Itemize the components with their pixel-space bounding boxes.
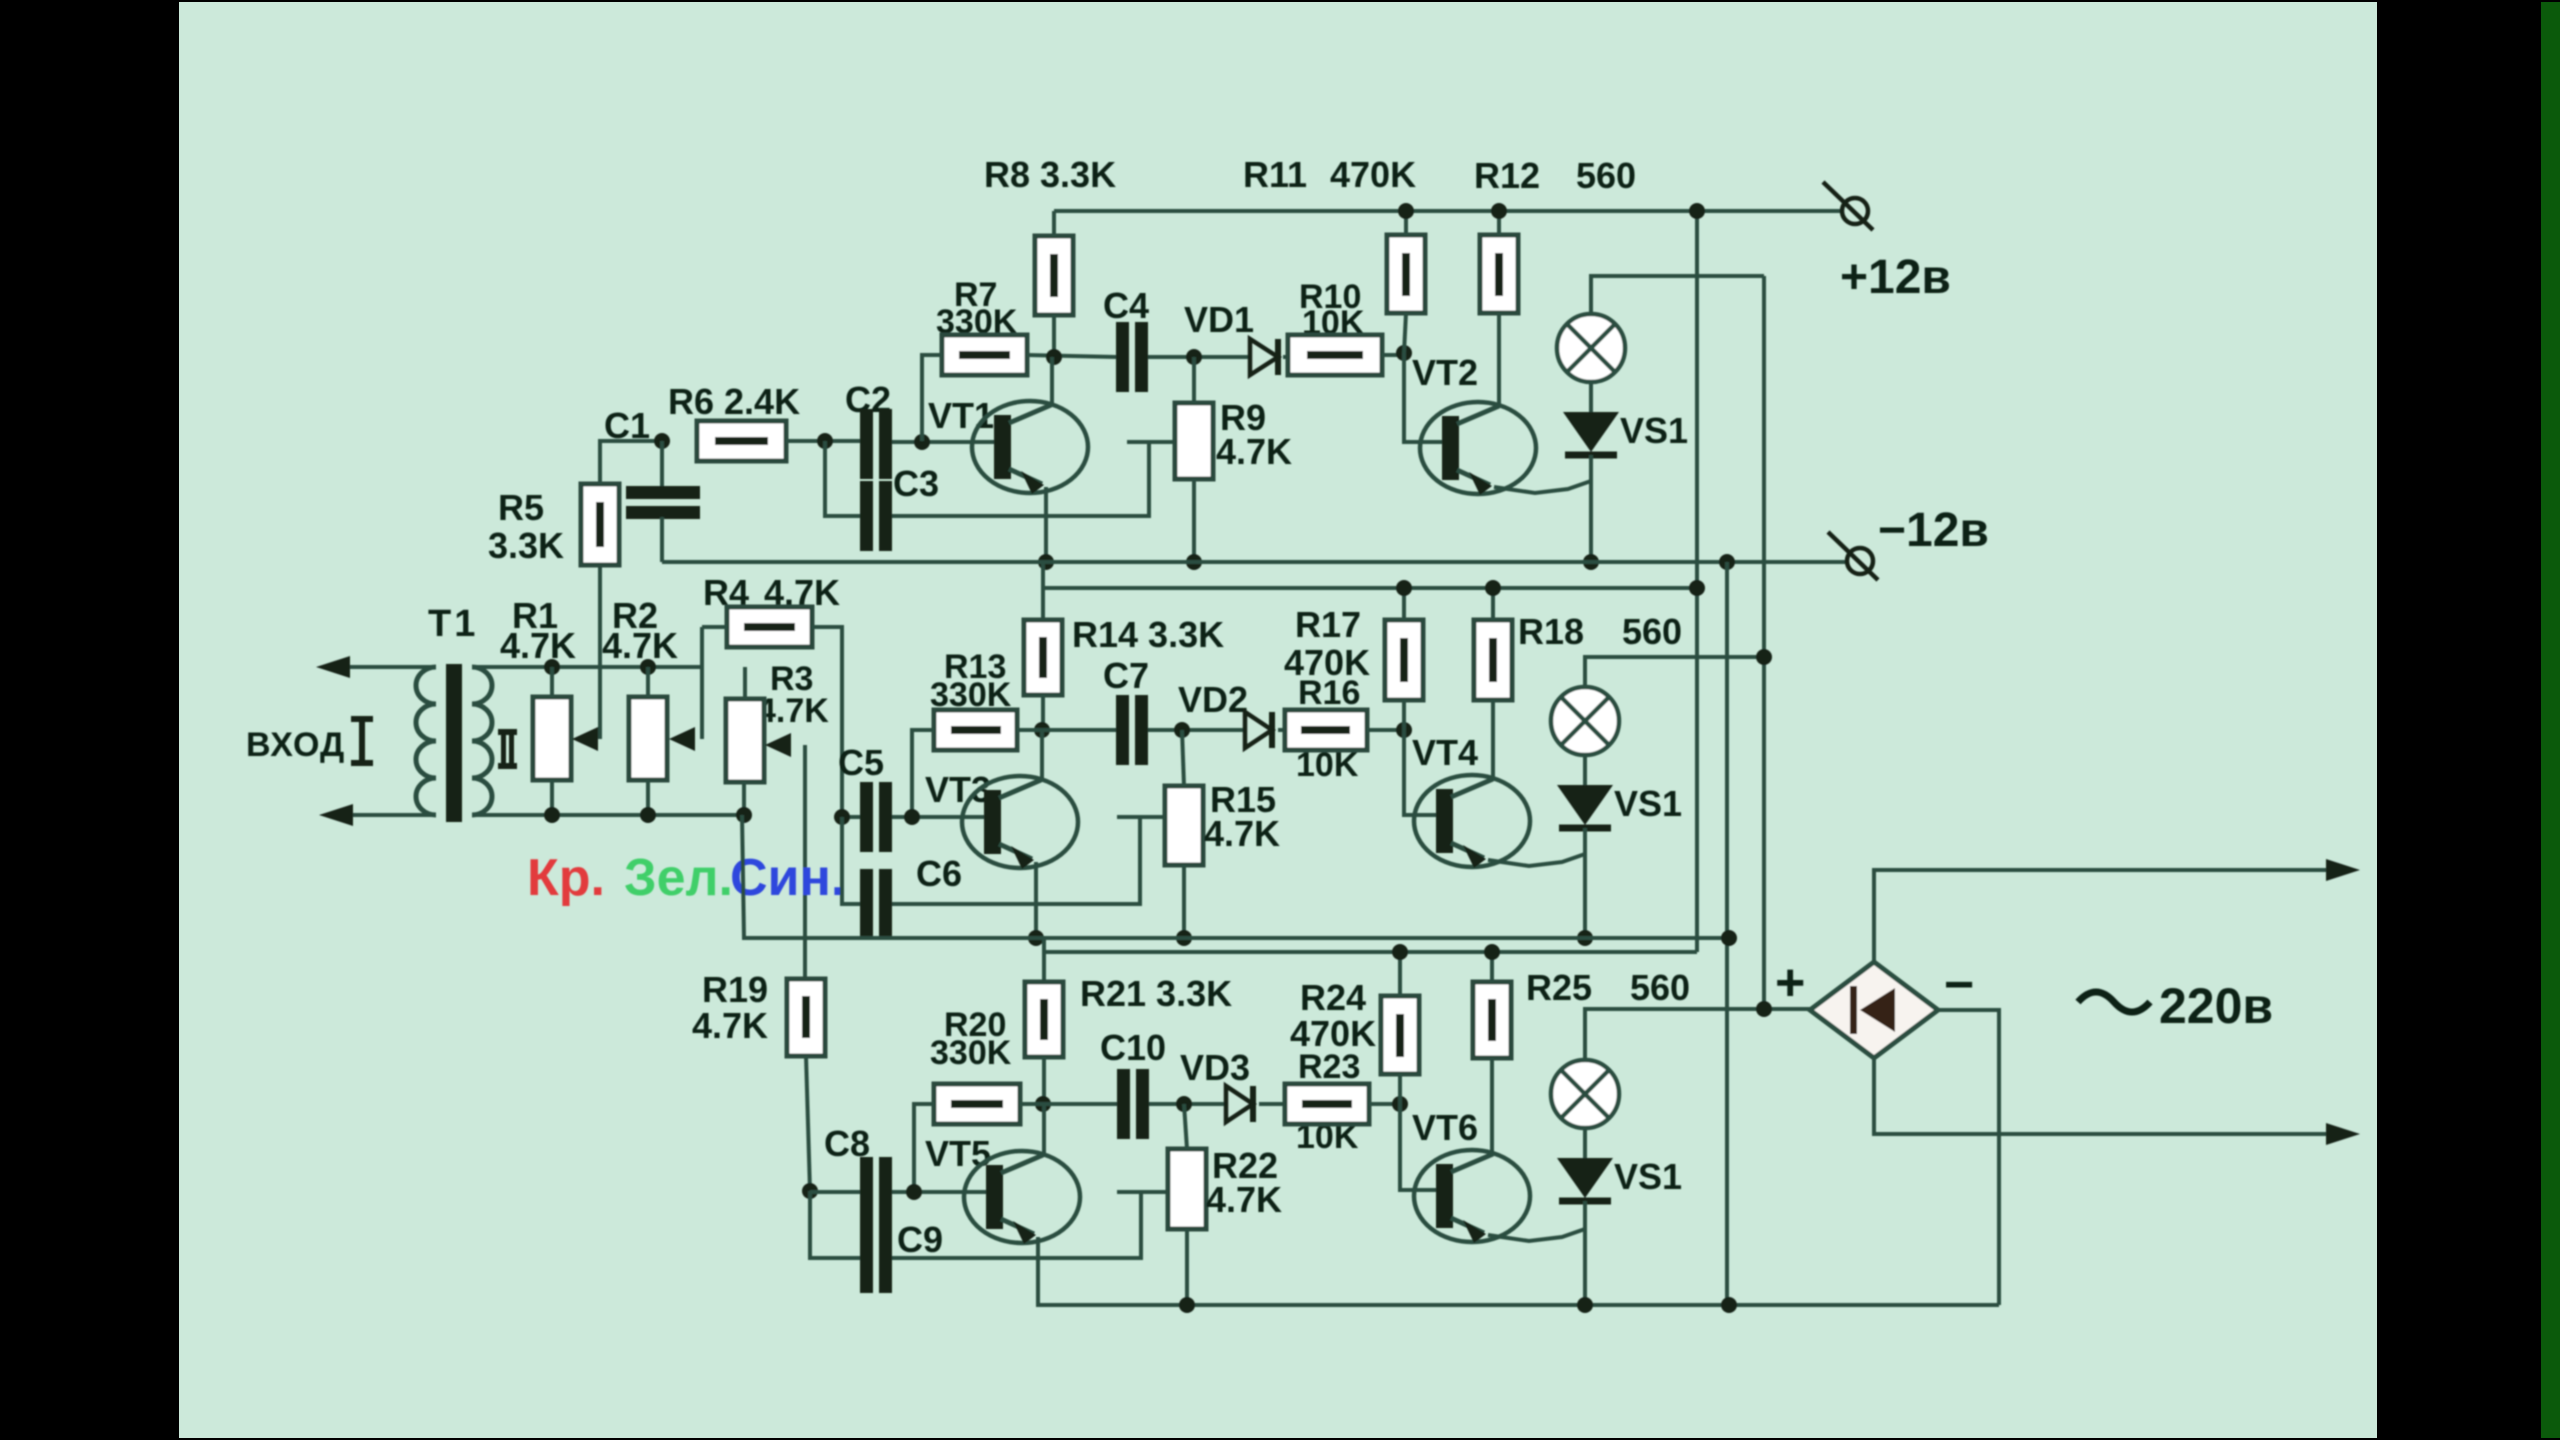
node VT1 base — [914, 434, 930, 450]
svg-text:R6 2.4K: R6 2.4K — [668, 381, 800, 422]
wire R4 right lead — [812, 627, 842, 817]
resistor R9 — [1175, 403, 1213, 479]
wire R25 top lead — [1490, 952, 1494, 982]
wire tee stub to R9 — [1127, 440, 1177, 444]
node R1 top — [544, 659, 560, 675]
node R11 top — [1398, 203, 1414, 219]
wire R8 top lead — [1052, 211, 1056, 236]
node R16 R17 base VT4 — [1396, 722, 1412, 738]
wire C6 right to R15 tee — [892, 817, 1140, 904]
wire R19 bottom lead — [806, 1056, 810, 1191]
wire R12 top lead — [1497, 211, 1501, 235]
wire R24 bottom lead — [1398, 1074, 1402, 1104]
resistor R14 — [1024, 620, 1062, 695]
wire C9 right to R22 tee — [892, 1192, 1141, 1258]
node C5 left — [834, 809, 850, 825]
wire R18 bottom to VT4 collector — [1491, 700, 1495, 779]
capacitor C7 — [1116, 695, 1129, 765]
node R22 bottom — [1179, 1297, 1195, 1313]
wire -12 distribution vertical — [1725, 562, 1729, 1305]
wire VT1 collector — [1050, 357, 1054, 407]
lamp HL1 — [1557, 314, 1625, 382]
svg-text:−: − — [1944, 956, 1974, 1014]
node lamp bus channel2 — [1756, 649, 1772, 665]
wire R1 bottom lead — [550, 780, 554, 815]
wire VT3 collector — [1040, 730, 1044, 782]
svg-text:Кр.: Кр. — [527, 849, 605, 907]
node channel3 common at distribution — [1721, 1297, 1737, 1313]
svg-text:VT6: VT6 — [1412, 1107, 1478, 1148]
thyristor VS1 channel 2 — [1557, 785, 1613, 825]
wire C8 to VT5 base — [892, 1190, 996, 1194]
capacitor C10 — [1117, 1069, 1130, 1139]
node R17 top — [1396, 580, 1412, 596]
wire VD1 to R10 — [1283, 355, 1288, 359]
wire C10 right lead — [1149, 1102, 1226, 1106]
wire C9 left elbow — [810, 1191, 860, 1258]
lamp HL3 — [1551, 1060, 1619, 1128]
resistor R16 — [1285, 710, 1367, 750]
node VS1 cathode channel 1 — [1583, 554, 1599, 570]
wire R20 right lead — [1020, 1102, 1117, 1106]
svg-text:220в: 220в — [2159, 978, 2273, 1034]
wire R2 top lead — [646, 667, 650, 697]
wire lamp2 to VS1 — [1583, 755, 1587, 787]
wire secondary top rail — [472, 665, 704, 669]
svg-text:R5: R5 — [498, 487, 544, 528]
winding symbol II — [498, 729, 517, 769]
wire VT5 emitter — [1038, 1237, 1999, 1305]
wire bridge right to common — [1938, 1010, 1999, 1305]
svg-text:VS1: VS1 — [1614, 1156, 1682, 1197]
wire VT1 emitter — [1044, 487, 1048, 562]
wire R8 bottom lead — [1052, 315, 1056, 357]
wire C3 left elbow — [825, 441, 860, 516]
resistor R15 — [1165, 786, 1203, 865]
svg-text:VS1: VS1 — [1614, 783, 1682, 824]
wire R20 left elbow — [914, 1104, 934, 1192]
resistor R19 — [787, 979, 825, 1056]
wire R13 left elbow — [912, 730, 934, 817]
resistor R10 — [1288, 335, 1382, 375]
wire R6 right lead — [786, 439, 860, 443]
resistor R6 — [697, 421, 786, 461]
svg-text:4.7K: 4.7K — [692, 1005, 768, 1046]
svg-text:4.7K: 4.7K — [500, 625, 576, 666]
diode VD2 — [1245, 712, 1272, 748]
node R3 bottom — [736, 807, 752, 823]
node R20 R21 VT5 collector — [1035, 1096, 1051, 1112]
wire -12 common rail — [662, 560, 1849, 564]
svg-text:C9: C9 — [897, 1219, 943, 1260]
node R25 top — [1484, 944, 1500, 960]
wire +12 supply rail — [1054, 209, 1843, 213]
node C1 top — [654, 433, 670, 449]
svg-text:C6: C6 — [916, 853, 962, 894]
svg-text:Зел.: Зел. — [624, 849, 733, 907]
svg-text:C4: C4 — [1103, 285, 1149, 326]
node R9 bottom — [1186, 554, 1202, 570]
node R13 R14 VT3 collector — [1034, 722, 1050, 738]
svg-text:VT5: VT5 — [925, 1133, 991, 1174]
wire VT2 emitter to VS1 gate — [1494, 481, 1591, 493]
node C8 C9 left — [802, 1183, 818, 1199]
wire R24 top lead — [1398, 952, 1402, 996]
node VT1 emitter — [1038, 554, 1054, 570]
input arrow bottom — [319, 804, 353, 826]
node C4 VD1 R9 — [1186, 349, 1202, 365]
svg-text:VT1: VT1 — [928, 395, 994, 436]
wire R5 top lead — [600, 441, 662, 484]
svg-text:VD2: VD2 — [1178, 679, 1248, 720]
resistor R17 — [1385, 620, 1423, 700]
lamp HL2 — [1551, 687, 1619, 755]
svg-text:560: 560 — [1622, 611, 1682, 652]
svg-text:470K: 470K — [1290, 1013, 1376, 1054]
potentiometer R2 — [629, 697, 667, 780]
wire channel3 supply rail — [1042, 938, 1046, 982]
thyristor VS1 channel 3 — [1557, 1158, 1613, 1198]
svg-text:4.7K: 4.7K — [1206, 1179, 1282, 1220]
capacitor C9 — [860, 1223, 873, 1293]
wire VT6 emitter to VS1 gate — [1488, 1229, 1585, 1241]
wiper arrow R1 — [572, 727, 598, 751]
arrow output bottom — [2326, 1123, 2360, 1145]
node VS1 cathode channel 2 — [1577, 930, 1593, 946]
svg-text:4.7K: 4.7K — [757, 692, 829, 730]
wire C1 bottom lead — [660, 517, 664, 562]
svg-text:VD3: VD3 — [1180, 1047, 1250, 1088]
svg-text:C5: C5 — [838, 742, 884, 783]
wire C4 right lead — [1148, 355, 1250, 359]
node C7 VD2 R15 — [1174, 722, 1190, 738]
svg-text:560: 560 — [1576, 155, 1636, 196]
svg-text:R24: R24 — [1300, 977, 1366, 1018]
wire bridge top output — [1874, 870, 2350, 962]
capacitor C4 — [1116, 322, 1129, 392]
wire R4 left lead — [702, 625, 727, 629]
node R2 bottom — [640, 807, 656, 823]
wire R22 top lead — [1184, 1104, 1187, 1149]
wire lamp3 top elbow — [1585, 1009, 1810, 1060]
green side bar — [2541, 2, 2560, 1438]
potentiometer R1 — [533, 697, 571, 780]
svg-text:470K: 470K — [1284, 642, 1370, 683]
wire lamp2 top elbow — [1585, 657, 1764, 687]
node R6 right — [817, 433, 833, 449]
node channel2 common at distribution — [1721, 930, 1737, 946]
svg-text:+: + — [1775, 954, 1805, 1012]
capacitor C3 — [860, 481, 873, 551]
resistor R22 — [1168, 1149, 1206, 1229]
svg-text:VT4: VT4 — [1412, 732, 1478, 773]
resistor R24 — [1381, 996, 1419, 1074]
transformer T1 primary winding — [416, 667, 436, 815]
wire C5 to VT3 base — [892, 815, 996, 819]
transistor VT2 — [1420, 402, 1536, 494]
svg-text:4.7K: 4.7K — [602, 625, 678, 666]
svg-text:R25: R25 — [1526, 967, 1592, 1008]
diode VD3 — [1226, 1086, 1253, 1122]
resistor R5 — [581, 484, 619, 565]
svg-text:R14 3.3K: R14 3.3K — [1072, 614, 1224, 655]
node R2 top — [640, 659, 656, 675]
resistor R21 — [1025, 982, 1063, 1057]
svg-text:VS1: VS1 — [1620, 410, 1688, 451]
wire secondary bottom rail — [472, 813, 744, 817]
wire R9 bottom lead — [1192, 479, 1196, 562]
svg-text:R21 3.3K: R21 3.3K — [1080, 973, 1232, 1014]
wire R2 bottom lead — [646, 780, 650, 815]
node -12 distribution — [1719, 554, 1735, 570]
svg-text:C10: C10 — [1100, 1027, 1166, 1068]
wire VT2 base lead — [1404, 353, 1444, 442]
wire R10 right lead — [1382, 353, 1404, 357]
capacitor C6 — [860, 869, 873, 939]
resistor R8 — [1035, 236, 1073, 315]
wire R7 left elbow — [922, 355, 942, 441]
wire VS1 cathode channel 2 — [1583, 828, 1587, 938]
svg-text:R19: R19 — [702, 969, 768, 1010]
wire R9 top lead — [1192, 357, 1196, 403]
wire VT5 collector — [1042, 1104, 1046, 1157]
svg-text:R8 3.3K: R8 3.3K — [984, 154, 1116, 195]
transistor VT1 — [972, 401, 1088, 493]
node VT3 emitter — [1028, 930, 1044, 946]
resistor R11 — [1387, 235, 1425, 313]
node R15 bottom rail2 — [0, 0, 1, 1]
wire R11 bottom lead — [1404, 313, 1406, 353]
input arrow top — [316, 656, 350, 678]
wire lamp bus vertical — [1762, 276, 1766, 1009]
wire VD3 to R23 — [1259, 1102, 1285, 1106]
svg-text:C3: C3 — [893, 463, 939, 504]
wire R16 right lead — [1367, 728, 1404, 732]
wire R25 bottom to VT6 collector — [1490, 1058, 1494, 1154]
wire C8 left lead — [810, 1190, 860, 1194]
wire +12 distribution vertical — [1695, 211, 1699, 952]
wire C5 left lead — [842, 815, 860, 819]
wiper arrow R2 — [669, 727, 695, 751]
bridge rectifier diamond — [1810, 962, 1938, 1058]
wire C2 to VT1 base — [892, 440, 996, 444]
svg-text:R12: R12 — [1474, 155, 1540, 196]
terminal -12в — [1847, 548, 1873, 574]
wire VS1 cathode channel 3 — [1583, 1201, 1587, 1305]
wiper arrow R3 — [765, 733, 791, 757]
wire input bottom lead — [333, 813, 436, 817]
winding symbol I — [351, 716, 373, 766]
wire R15 top lead — [1182, 730, 1184, 786]
wire VS1 cathode channel 1 — [1589, 455, 1593, 562]
resistor R7 — [942, 335, 1027, 375]
wire C1 top lead — [660, 441, 664, 489]
wire lamp1 to VS1 — [1589, 382, 1593, 414]
wire tee stub to R22 — [1117, 1190, 1169, 1194]
wire R3 bottom lead — [742, 782, 746, 815]
bridge diode symbol — [1850, 986, 1895, 1034]
svg-text:4.7K: 4.7K — [1204, 813, 1280, 854]
arrow output top — [2326, 859, 2360, 881]
wire C6 left elbow — [842, 817, 860, 904]
svg-text:R18: R18 — [1518, 611, 1584, 652]
wire lamp3 to VS1 — [1583, 1128, 1587, 1160]
svg-text:3.3K: 3.3K — [488, 525, 564, 566]
wire R18 top lead — [1491, 588, 1495, 620]
svg-text:+12в: +12в — [1840, 251, 1951, 304]
wire R14 bottom lead — [1041, 695, 1045, 730]
node VT3 base — [904, 809, 920, 825]
wire R22 bottom lead — [1185, 1229, 1189, 1305]
transformer T1 secondary winding — [472, 667, 492, 815]
svg-text:R17: R17 — [1295, 604, 1361, 645]
terminal +12в — [1842, 198, 1868, 224]
svg-text:VT2: VT2 — [1412, 352, 1478, 393]
resistor R25 — [1473, 982, 1511, 1058]
svg-text:C1: C1 — [604, 405, 650, 446]
wire input top lead — [330, 665, 436, 669]
potentiometer R3 — [726, 699, 764, 782]
node R23 R24 base VT6 — [1392, 1096, 1408, 1112]
thyristor VS1 channel 1 — [1563, 412, 1619, 452]
wire lamp1 top elbow — [1591, 276, 1764, 314]
transformer T1 core — [446, 664, 462, 822]
node lamp bus channel3 — [1756, 1001, 1772, 1017]
node R24 top — [1392, 944, 1408, 960]
wire R17 top lead — [1402, 588, 1406, 620]
transistor VT6 — [1414, 1150, 1530, 1242]
wire R13 right lead — [1017, 728, 1116, 732]
resistor R13 — [934, 710, 1017, 750]
node R10 R11 base VT2 — [1396, 345, 1412, 361]
svg-text:VD1: VD1 — [1184, 299, 1254, 340]
wire VT3 emitter — [1034, 862, 1038, 938]
wire R2 wiper to R4 — [700, 627, 704, 739]
node VS1 cathode channel 3 — [1577, 1297, 1593, 1313]
resistor R20 — [934, 1084, 1020, 1124]
svg-text:−12в: −12в — [1878, 504, 1989, 557]
node R18 top — [1485, 580, 1501, 596]
transistor VT4 — [1414, 775, 1530, 867]
node R15 bottom — [1176, 930, 1192, 946]
wire R1 wiper to R5 — [598, 565, 602, 739]
svg-text:C7: C7 — [1103, 655, 1149, 696]
svg-text:470K: 470K — [1330, 154, 1416, 195]
svg-text:T1: T1 — [428, 603, 478, 645]
wire R15 bottom lead — [1182, 865, 1186, 938]
transistor VT5 — [964, 1151, 1080, 1243]
resistor R23 — [1285, 1084, 1369, 1124]
label ~ 220в — [2078, 992, 2150, 1012]
node VT5 base — [906, 1184, 922, 1200]
transistor VT3 — [962, 776, 1078, 868]
node channel2 rail at +12 vertical — [1689, 580, 1705, 596]
capacitor C8 — [860, 1157, 873, 1227]
resistor R12 — [1480, 235, 1518, 313]
capacitor C1 — [626, 486, 700, 499]
wire tee stub to R15 — [1117, 815, 1167, 819]
wire channel2 common rail — [742, 815, 1729, 938]
wire bridge bottom output — [1874, 1058, 2350, 1134]
node R12 top — [1491, 203, 1507, 219]
wire R12 bottom to VT2 collector — [1497, 313, 1501, 406]
svg-text:Син.: Син. — [730, 849, 845, 907]
svg-text:330K: 330K — [930, 1034, 1012, 1072]
wire C3 right to R9 tee — [892, 442, 1149, 516]
wire C7 right lead — [1148, 728, 1245, 732]
resistor R18 — [1474, 620, 1512, 700]
svg-text:560: 560 — [1630, 967, 1690, 1008]
node R7 R8 VT1 collector — [1046, 349, 1062, 365]
node C10 VD3 R22 — [1176, 1096, 1192, 1112]
wire VD2 to R16 — [1278, 728, 1285, 732]
capacitor C5 — [860, 782, 873, 852]
wire R11 top lead — [1404, 211, 1408, 235]
wire VT6 base lead — [1400, 1104, 1444, 1190]
diode VD1 — [1250, 339, 1278, 375]
wire R3 top lead — [743, 667, 747, 699]
wire VT4 base lead — [1404, 730, 1444, 815]
node R1 bottom — [544, 807, 560, 823]
wire R23 right lead — [1369, 1102, 1400, 1106]
wire R7 right lead — [1027, 355, 1116, 357]
wire R1 top lead — [550, 667, 554, 697]
svg-text:R11: R11 — [1243, 154, 1307, 195]
resistor R4 — [727, 607, 812, 647]
wire channel2 supply rail — [1041, 562, 1045, 620]
svg-text:ВХОД: ВХОД — [246, 726, 345, 764]
svg-text:4.7K: 4.7K — [1216, 431, 1292, 472]
wire R17 bottom lead — [1402, 700, 1406, 730]
capacitor C2 — [860, 409, 873, 479]
wire R21 bottom lead — [1042, 1057, 1046, 1104]
wire R3 wiper down to R19 — [803, 745, 807, 979]
wire VT4 emitter to VS1 gate — [1488, 854, 1585, 866]
node +12 distribution top — [1689, 203, 1705, 219]
